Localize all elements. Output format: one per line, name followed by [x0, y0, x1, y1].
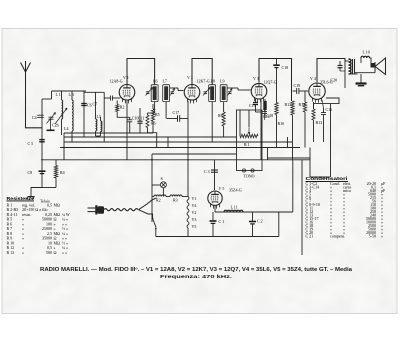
svg-text:Frequenza: 470 kHz.: Frequenza: 470 kHz.	[160, 274, 232, 279]
tube V2	[184, 85, 200, 101]
wire	[54, 178, 58, 188]
wire switch column	[150, 154, 154, 222]
capacitor C14	[262, 110, 267, 114]
coil L10 secondary	[361, 56, 370, 58]
capacitor C7	[109, 96, 113, 101]
wire bus 2	[64, 140, 293, 144]
wire	[60, 119, 64, 135]
wire	[299, 89, 308, 93]
wire	[291, 115, 295, 160]
speaker cone	[375, 58, 386, 75]
svg-text:R 1: R 1	[244, 142, 250, 147]
svg-text:12A8-G: 12A8-G	[110, 79, 123, 84]
svg-text:R 12: R 12	[7, 245, 15, 250]
wire bottom rail	[156, 234, 279, 238]
resistor R11	[291, 101, 294, 115]
svg-text:C6: C6	[87, 103, 92, 108]
svg-text:L5: L5	[97, 114, 101, 119]
chassis bar under trimmer	[47, 127, 55, 133]
tuning arrow T2a	[203, 88, 210, 96]
wire V4 plate to output transformer	[317, 59, 345, 83]
resistor R5	[151, 109, 154, 121]
svg-text:L7: L7	[163, 78, 167, 83]
svg-text:R 2-R3: R 2-R3	[7, 207, 19, 212]
wire top coil bus	[52, 89, 87, 93]
wire	[96, 134, 101, 138]
svg-text:20+150 Ω a filo: 20+150 Ω a filo	[22, 207, 48, 212]
wire	[329, 104, 333, 177]
svg-text:R 1: R 1	[7, 202, 13, 207]
svg-text:R 7: R 7	[7, 226, 13, 231]
wire	[186, 228, 190, 237]
tuning arrow T1a	[146, 88, 153, 96]
capacitor C18b	[321, 111, 326, 115]
svg-text:L4: L4	[64, 126, 68, 131]
tuning arrow L1	[55, 108, 67, 124]
capacitor C12 trimmer	[146, 90, 149, 94]
capacitor C17	[176, 115, 180, 122]
wire AVC	[167, 117, 178, 121]
svg-text:35Z4-G: 35Z4-G	[229, 188, 242, 193]
svg-text:V4: V4	[192, 203, 197, 208]
wire bus 5	[41, 158, 310, 162]
svg-text:S: S	[161, 176, 163, 181]
svg-text:R3: R3	[173, 198, 178, 203]
svg-text:MΩ: MΩ	[54, 231, 61, 236]
wire	[293, 89, 297, 93]
wire right column long	[300, 160, 304, 255]
svg-text:Resistenze: Resistenze	[7, 196, 35, 201]
svg-text:C 3: C 3	[204, 169, 210, 174]
resistor R1 volume	[240, 134, 258, 137]
wire bus AVC	[64, 135, 237, 139]
wire to voice coil	[370, 58, 374, 65]
wire wiper stem	[247, 110, 251, 128]
svg-text:50000: 50000	[42, 217, 52, 222]
svg-text:R 13: R 13	[7, 250, 15, 255]
capacitor C4	[37, 113, 44, 117]
svg-text:R 9: R 9	[7, 236, 13, 241]
svg-text:V3: V3	[192, 217, 197, 222]
svg-text:35000: 35000	[42, 236, 52, 241]
ground below transformer	[356, 79, 367, 88]
wire	[148, 128, 157, 148]
tube V1	[119, 85, 135, 101]
wire speaker return	[355, 71, 376, 75]
tuning arrow T2b	[228, 89, 232, 96]
svg-text:R13: R13	[316, 120, 323, 125]
svg-text:L9: L9	[220, 78, 224, 83]
svg-text:R12: R12	[299, 102, 306, 107]
svg-text:V5: V5	[192, 224, 197, 229]
wire	[182, 195, 188, 199]
wire antenna down-lead	[26, 72, 43, 128]
mains cord	[104, 209, 138, 211]
svg-text:V2: V2	[192, 210, 197, 215]
capacitor trimmer T2a	[204, 90, 207, 94]
svg-text:¼ W: ¼ W	[62, 212, 70, 217]
wire V3 cathode column	[259, 100, 263, 161]
filter choke L11	[224, 210, 243, 212]
wire cord upper branch	[139, 198, 157, 210]
svg-text:C20: C20	[331, 78, 338, 83]
svg-text:Ω: Ω	[54, 236, 57, 241]
svg-text:C8: C8	[28, 170, 33, 175]
svg-text:¼ »: ¼ »	[62, 245, 68, 250]
svg-text:L 10: L 10	[363, 50, 370, 55]
svg-text:C11: C11	[138, 115, 145, 120]
svg-text:R 4-11: R 4-11	[7, 212, 18, 217]
wire V1 plate to IF1	[127, 59, 155, 85]
svg-text:100: 100	[46, 221, 52, 226]
wire V1 cathode down	[125, 101, 129, 133]
capacitor across primary	[338, 63, 343, 68]
capacitor C13 trimmer	[171, 90, 174, 94]
svg-text:R10: R10	[278, 121, 285, 126]
coil L5a	[96, 119, 97, 131]
wire bus 4	[152, 152, 237, 156]
svg-text:»: »	[22, 226, 24, 231]
wire	[117, 112, 130, 120]
wire V5 cathode	[213, 206, 217, 212]
wiper arrow R1	[248, 128, 251, 134]
svg-text:L 11: L 11	[231, 205, 238, 210]
svg-text:R11: R11	[285, 102, 292, 107]
svg-text:25000: 25000	[42, 226, 52, 231]
wire	[211, 212, 215, 221]
wire to ground	[359, 74, 363, 83]
wire to V2 grid	[170, 86, 178, 90]
wire oscillator grid down	[102, 98, 106, 142]
wire	[153, 102, 157, 113]
capacitor C15	[253, 100, 258, 105]
wire cord lower branch	[139, 210, 153, 218]
svg-text:R4: R4	[60, 170, 65, 175]
svg-text:5-50: 5-50	[369, 234, 376, 239]
svg-text:R 6: R 6	[7, 221, 13, 226]
wire	[94, 92, 98, 119]
resistor R10	[275, 103, 278, 115]
wire	[115, 101, 119, 105]
tuning arrow T1b	[170, 89, 174, 96]
capacitor C5	[39, 137, 45, 143]
svg-text:TONO: TONO	[244, 174, 255, 179]
wire to V3 grid	[227, 86, 238, 90]
svg-text:V 5: V 5	[219, 186, 225, 191]
svg-text:C18: C18	[282, 65, 289, 70]
wire	[349, 72, 358, 76]
wire V2 cathode column	[186, 101, 190, 197]
resistor R4	[54, 166, 57, 179]
svg-text:»: »	[22, 250, 24, 255]
svg-text:C4: C4	[32, 115, 37, 120]
wire bus 3	[60, 146, 300, 150]
capacitor C19	[295, 88, 299, 94]
wire	[50, 91, 54, 99]
tube V5	[208, 191, 222, 205]
wire	[180, 117, 188, 121]
voice coil	[371, 63, 376, 68]
wire	[42, 97, 52, 101]
wire	[251, 212, 255, 221]
svg-text:MΩ: MΩ	[54, 202, 61, 207]
svg-text:»: »	[54, 226, 56, 231]
wire V3 plate riser	[259, 59, 292, 102]
svg-text:R6: R6	[151, 121, 156, 126]
resistor R13	[312, 109, 315, 120]
antenna	[21, 63, 26, 73]
svg-text:»: »	[22, 231, 24, 236]
wire V2 plate to IF2	[192, 59, 212, 85]
lamp S	[160, 182, 166, 188]
wire	[162, 188, 166, 197]
wire oscillator column	[82, 91, 86, 137]
svg-text:C17: C17	[173, 110, 180, 115]
svg-text:C7: C7	[93, 102, 98, 107]
capacitor C2	[249, 218, 256, 224]
wire V5 plate lead	[213, 160, 217, 190]
svg-text:C 21: C 21	[306, 234, 314, 239]
coil L4	[72, 100, 73, 131]
wire	[54, 160, 58, 166]
coil L5b	[101, 121, 102, 132]
svg-text:C19: C19	[294, 83, 301, 88]
capacitor C6	[81, 101, 87, 106]
tube V3	[251, 83, 267, 99]
resistor R2 heater	[154, 195, 166, 197]
wire	[70, 131, 74, 142]
svg-text:L 1: L 1	[56, 92, 61, 97]
svg-text:½ »: ½ »	[62, 240, 68, 245]
svg-text:Ω: Ω	[54, 250, 57, 255]
capacitor C11	[138, 119, 143, 124]
svg-text:»: »	[22, 245, 24, 250]
svg-text:MΩ: MΩ	[54, 240, 61, 245]
svg-text:C 2: C 2	[257, 219, 263, 224]
wire V4 cathode loop	[314, 98, 340, 109]
svg-text:12K7-G: 12K7-G	[197, 79, 210, 84]
svg-text:V 1: V 1	[123, 75, 129, 80]
svg-text:»: »	[381, 234, 383, 239]
svg-text:C 1: C 1	[219, 219, 225, 224]
volume control R1 box	[237, 110, 263, 171]
resistor R3 heater	[170, 195, 182, 197]
trimmer capacitor C21	[49, 115, 54, 119]
wire	[266, 148, 270, 160]
svg-text:10: 10	[48, 240, 52, 245]
svg-text:R5: R5	[155, 112, 160, 117]
svg-text:reg. vol.: reg. vol.	[22, 202, 35, 207]
svg-text:»: »	[54, 221, 56, 226]
wire	[104, 96, 110, 100]
svg-text:C 5: C 5	[28, 141, 34, 146]
svg-text:Ω: Ω	[54, 217, 57, 222]
svg-text:»: »	[22, 236, 24, 241]
svg-text:MΩ: MΩ	[54, 212, 61, 217]
TONO terminals	[242, 169, 245, 172]
wire	[164, 102, 168, 119]
svg-text:L8: L8	[211, 78, 215, 83]
svg-text:»: »	[54, 245, 56, 250]
heater chain winding	[187, 197, 189, 229]
capacitor C10	[127, 118, 132, 122]
capacitor C18 on plate feed	[273, 62, 280, 68]
svg-text:R 10: R 10	[7, 240, 15, 245]
resistor R9 block	[263, 101, 266, 110]
wire	[277, 212, 281, 237]
resistor R8	[222, 112, 225, 126]
svg-text:compens.: compens.	[330, 234, 345, 239]
wire	[178, 89, 184, 93]
svg-text:500: 500	[46, 250, 52, 255]
svg-text:R8: R8	[218, 113, 223, 118]
svg-text:R 8: R 8	[7, 231, 13, 236]
capacitor trimmer T2b	[228, 90, 231, 94]
wire	[113, 96, 121, 100]
coil L1	[62, 100, 63, 119]
svg-text:R 5: R 5	[7, 217, 13, 222]
svg-text:¼ »: ¼ »	[62, 231, 68, 236]
wire V1 grid line	[84, 90, 104, 94]
svg-text:V 4: V 4	[310, 76, 316, 81]
svg-text:12Q7-G: 12Q7-G	[264, 80, 277, 85]
resistor R2	[116, 105, 119, 112]
svg-text:C16: C16	[326, 107, 333, 112]
svg-text:»: »	[22, 217, 24, 222]
capacitor C3	[211, 168, 218, 172]
wire lamp feed	[152, 183, 160, 187]
wire horizontal under V1	[64, 131, 153, 135]
svg-text:C10: C10	[132, 116, 139, 121]
svg-text:» »: » »	[62, 221, 67, 226]
svg-text:R2: R2	[120, 105, 125, 110]
svg-text:V1: V1	[192, 196, 197, 201]
svg-text:» »: » »	[62, 250, 67, 255]
wire	[210, 102, 214, 142]
mains plug	[88, 206, 96, 210]
svg-text:L 3: L 3	[69, 92, 74, 97]
svg-text:L6: L6	[153, 78, 157, 83]
wire node chassis	[42, 186, 56, 190]
svg-text:C14: C14	[263, 114, 270, 119]
wire	[268, 156, 311, 160]
wire to chassis	[31, 188, 42, 197]
wire	[62, 133, 66, 160]
transformer core	[350, 59, 354, 74]
svg-text:resist.: resist.	[22, 212, 31, 217]
switch	[152, 217, 154, 219]
wire V1 column to bus	[125, 133, 129, 160]
svg-text:Condensatori: Condensatori	[306, 176, 348, 181]
svg-text:» »: » »	[62, 236, 67, 241]
capacitor C8	[39, 168, 46, 174]
capacitor C1	[210, 218, 217, 224]
resistor R6	[146, 115, 149, 128]
svg-text:RADIO MARELLI. — Mod. FIDO III: RADIO MARELLI. — Mod. FIDO IIIº. – V1 = …	[40, 267, 352, 273]
svg-text:»: »	[22, 221, 24, 226]
resistor R12	[303, 102, 306, 112]
wire R1 left riser	[238, 110, 242, 136]
svg-text:V 3: V 3	[253, 76, 259, 81]
wire	[291, 160, 295, 212]
wire	[310, 175, 330, 179]
svg-text:½ »: ½ »	[62, 226, 68, 231]
svg-text:C15: C15	[249, 103, 256, 108]
wire right drop	[308, 148, 312, 178]
tube V4	[309, 83, 325, 99]
svg-text:¼ »: ¼ »	[62, 217, 68, 222]
wire B+ line	[215, 210, 293, 214]
wire node input column	[40, 99, 44, 188]
